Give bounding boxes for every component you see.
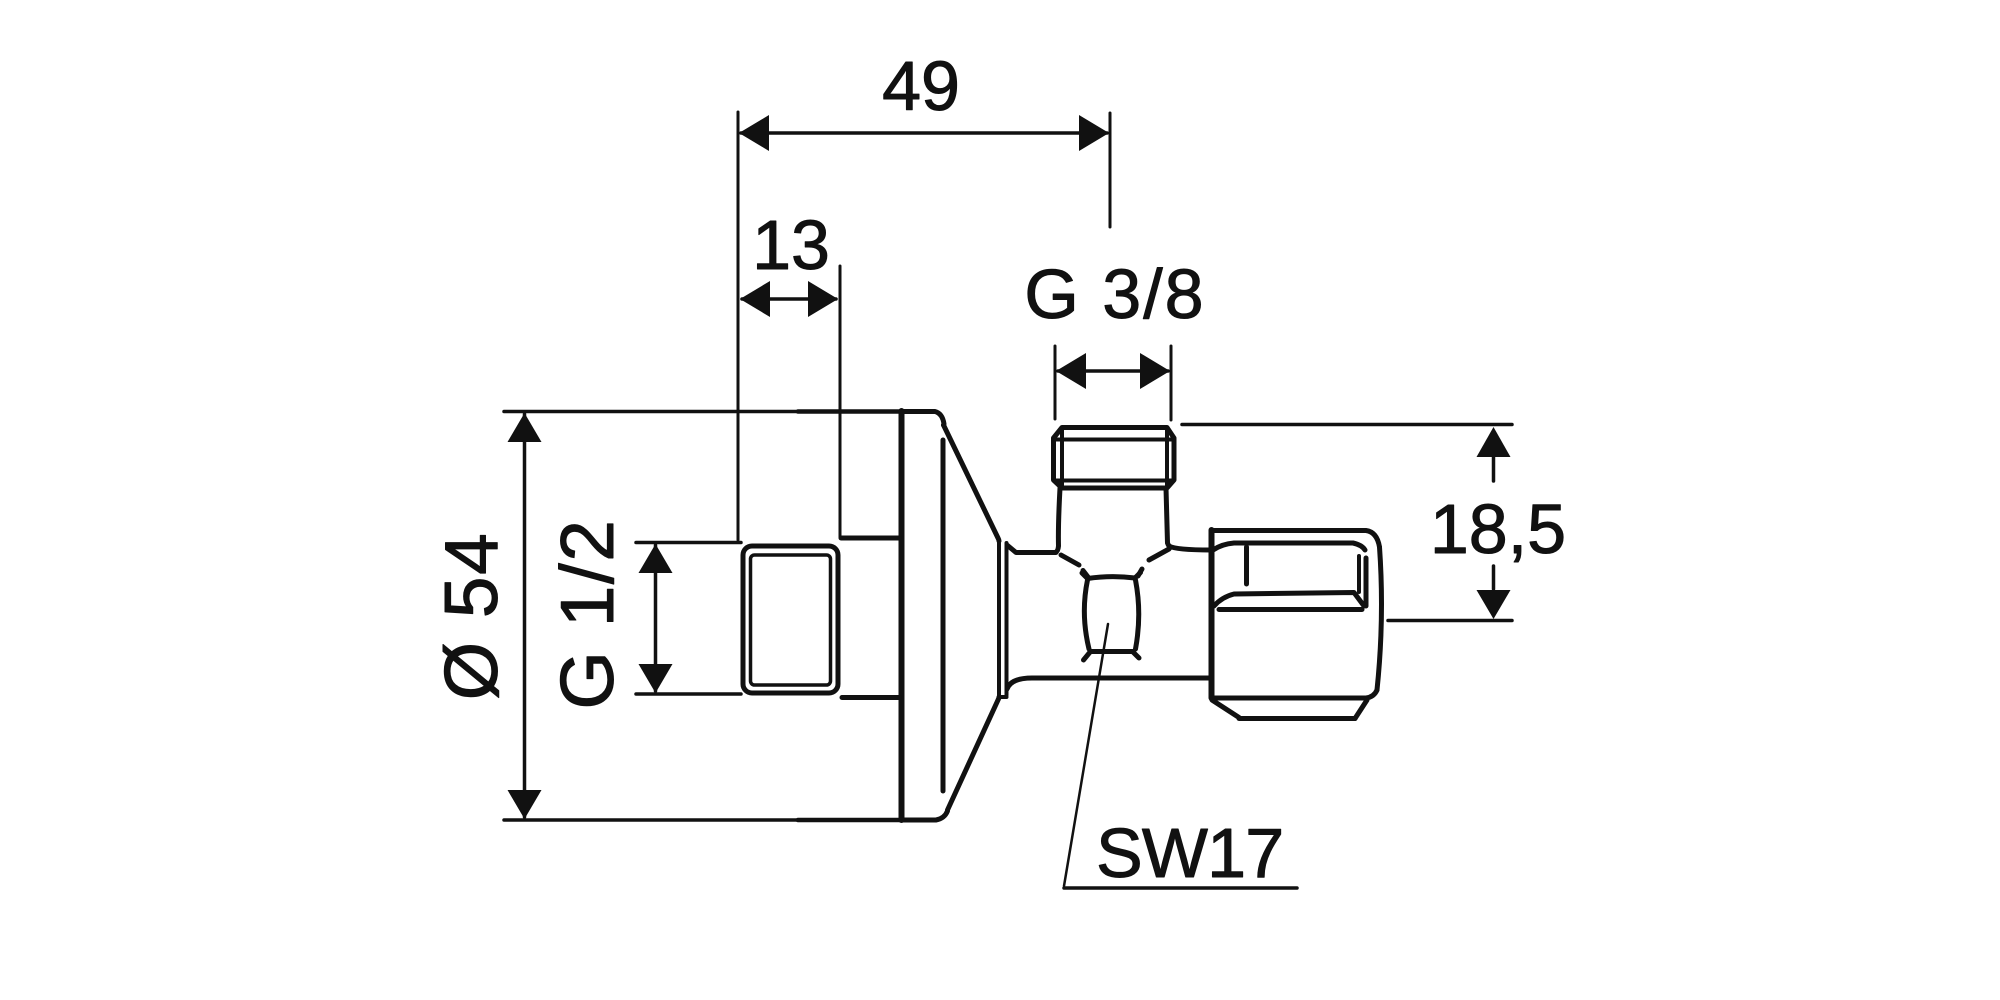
dimension 13 right extension line <box>839 266 842 537</box>
hex SW17 right side <box>1136 580 1139 649</box>
chamfer broken line right <box>1138 549 1169 576</box>
dimension 13 dim line <box>742 297 836 301</box>
nut bottom chamfer right slant <box>1355 700 1367 719</box>
dimension G 1/2 bottom tick line <box>636 692 741 696</box>
cone base ring right line <box>1005 543 1009 695</box>
nut face right inner vertical <box>1357 556 1361 592</box>
nut bottom edge <box>1212 696 1366 701</box>
nut face left vertical <box>1244 547 1249 584</box>
dimension 13 left arrowhead <box>740 281 770 317</box>
flange cone base circle line <box>941 440 946 791</box>
dimension 18,5 lower stem <box>1492 566 1496 589</box>
dimension G 1/2 top arrowhead <box>639 544 673 573</box>
dimension 18,5 top tick line <box>1182 423 1512 427</box>
body right shoulder top edge <box>1169 546 1211 550</box>
G3/8 port neck right side <box>1166 488 1171 548</box>
nut top edge <box>1212 531 1380 548</box>
dimension 49 right extension line <box>1109 113 1112 227</box>
hex SW17 bottom edge <box>1084 652 1140 661</box>
G3/8 port cap inner bottom line <box>1054 479 1173 483</box>
svg-text:G 3/8: G 3/8 <box>1024 255 1205 333</box>
G3/8 port cap outline <box>1054 428 1175 489</box>
flange front face line <box>899 411 905 820</box>
dimension G 1/2 top tick line <box>636 541 741 545</box>
thread G1/2 outer rectangle <box>743 546 838 693</box>
hex SW17 top edge <box>1082 573 1141 579</box>
dimension G 3/8 right arrowhead <box>1140 353 1170 389</box>
nut face lower parallel line <box>1219 607 1362 612</box>
nut face top boundary <box>1213 543 1365 550</box>
G3/8 port cap inner left line <box>1060 428 1064 488</box>
leader line SW17 <box>1064 624 1108 886</box>
flange cone top slant <box>944 425 1000 541</box>
dimension 18,5 top arrowhead <box>1477 427 1511 457</box>
dimension G 1/2 bottom arrowhead <box>639 664 673 693</box>
dimension Ø54 top tick line <box>504 410 798 414</box>
cone base ring bottom <box>999 695 1007 699</box>
dimension G 3/8 dim line <box>1058 369 1168 373</box>
chamfer broken line left <box>1061 555 1088 577</box>
dimension Ø54 top arrowhead <box>508 413 542 442</box>
nut bottom chamfer left slant <box>1212 700 1239 718</box>
dimension 49 right arrowhead <box>1079 115 1109 151</box>
nut left edge <box>1209 530 1215 698</box>
svg-text:13: 13 <box>752 206 830 284</box>
dimension G 1/2 vertical dim line <box>654 545 658 691</box>
dimension 49 left arrowhead <box>739 115 769 151</box>
dimension 13 right arrowhead <box>808 281 838 317</box>
body bottom edge <box>1007 678 1210 689</box>
hex SW17 left side <box>1084 580 1089 649</box>
svg-text:18,5: 18,5 <box>1430 490 1566 568</box>
dimension Ø54 bottom arrowhead <box>508 790 542 819</box>
dimension G 3/8 right extension line <box>1170 346 1173 420</box>
nut bottom chamfer edge <box>1239 716 1355 721</box>
nut face bottom boundary <box>1214 593 1364 607</box>
nut face right vertical <box>1364 558 1369 606</box>
svg-text:Ø 54: Ø 54 <box>429 532 513 701</box>
flange top rim edge <box>901 412 944 426</box>
nut right edge <box>1377 547 1382 690</box>
shank top edge <box>841 536 899 541</box>
svg-text:SW17: SW17 <box>1096 814 1283 892</box>
dimension 49 left extension line <box>737 112 740 540</box>
dimension 18,5 upper stem <box>1492 457 1496 481</box>
svg-text:49: 49 <box>882 47 960 125</box>
G3/8 port cap inner top line <box>1054 438 1173 442</box>
G3/8 port neck left side <box>1056 488 1060 552</box>
dimension 18,5 bottom tick line <box>1388 619 1512 623</box>
flange bottom rim edge <box>901 811 948 820</box>
flange cone bottom slant <box>948 697 1000 810</box>
leader underline SW17 <box>1064 886 1297 890</box>
G3/8 port cap inner right line <box>1165 428 1169 488</box>
dimension 18,5 bottom arrowhead <box>1477 590 1511 619</box>
dimension G 3/8 left arrowhead <box>1056 353 1086 389</box>
shank bottom edge <box>842 695 899 700</box>
nut bottom right corner <box>1366 690 1377 698</box>
dimension 49 horizontal dim line <box>741 131 1107 135</box>
body left shoulder top edge <box>1007 545 1056 553</box>
svg-text:G 1/2: G 1/2 <box>545 519 629 710</box>
thread G1/2 inner rectangle <box>751 555 831 685</box>
cone base ring left line <box>997 541 1001 697</box>
dimension Ø54 bottom tick line <box>504 818 798 822</box>
dimension Ø54 vertical dim line <box>523 414 527 817</box>
dimension G 3/8 left extension line <box>1054 346 1057 419</box>
